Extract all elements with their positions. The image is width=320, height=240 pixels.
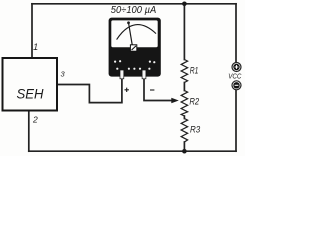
meter needle: [129, 23, 133, 49]
svg-text:VCC: VCC: [228, 73, 242, 80]
node junction top: [182, 2, 187, 7]
meter binding post -: [142, 70, 146, 79]
svg-text:R2: R2: [189, 97, 199, 108]
wire resistor chain top: [183, 4, 185, 60]
wire bottom horizontal: [29, 150, 236, 152]
meter terminal dots: [114, 61, 116, 63]
terminal -Vcc: [232, 81, 241, 90]
wire top horizontal: [32, 3, 236, 5]
wire pin2 drop: [28, 111, 30, 151]
wire R2 to R3: [183, 116, 185, 119]
meter scale arc: [117, 25, 156, 40]
wire R1 to R2: [183, 83, 185, 91]
svg-text:R3: R3: [190, 124, 201, 135]
meter M1 (microammeter): [109, 18, 161, 79]
wire right bottom riser from - terminal: [235, 90, 237, 151]
svg-text:50÷100 µA: 50÷100 µA: [111, 5, 157, 16]
wire pin3 to meter plus: [58, 76, 122, 103]
svg-text:R1: R1: [190, 65, 199, 76]
resistor R2 (with wiper arrow target): [181, 91, 200, 117]
svg-text:1: 1: [33, 42, 38, 52]
resistor R1: [181, 60, 198, 83]
meter polarity label +: [125, 88, 129, 92]
wire pin1 riser: [31, 4, 33, 57]
node junction bottom: [182, 149, 187, 154]
svg-text:SEH: SEH: [17, 86, 44, 101]
resistor R3: [181, 119, 201, 143]
SEH module U1: [3, 58, 58, 111]
meter polarity label -: [150, 89, 154, 91]
wire R3 to bottom: [183, 142, 185, 151]
terminal +Vcc: [232, 63, 241, 72]
wire right top drop to + terminal: [235, 4, 237, 63]
wire meter minus to wiper arrow: [144, 76, 179, 103]
meter binding post +: [120, 70, 124, 79]
meter zero-adjust screw: [130, 45, 136, 51]
svg-text:2: 2: [32, 115, 38, 125]
